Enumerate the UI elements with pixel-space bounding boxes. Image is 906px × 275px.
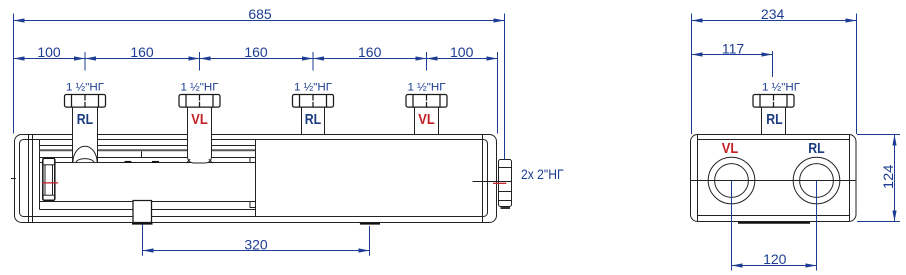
- hex plug red centerline: [42, 182, 58, 184]
- extension line left 685: [13, 14, 15, 134]
- nozzle 2 weld ticks: [186, 159, 190, 163]
- dimension 685: [14, 6, 505, 23]
- side inner offset bottom: [698, 215, 850, 217]
- nozzle 1 RL stub (sectioned): [73, 107, 98, 162]
- svg-text:1 ½"НГ: 1 ½"НГ: [294, 81, 332, 93]
- side nozzle stub: [762, 107, 786, 134]
- svg-text:100: 100: [450, 44, 474, 60]
- extension line 124 top: [857, 134, 900, 136]
- svg-text:1 ½"НГ: 1 ½"НГ: [762, 81, 800, 93]
- dimension chain 100/160/160/160/100: [14, 44, 498, 61]
- drain boss: [132, 201, 153, 224]
- nozzle 1 hex nut: [65, 95, 106, 108]
- side cap line left: [697, 135, 699, 222]
- side inner offset top: [698, 139, 850, 141]
- extension line 120 left (VL axis): [731, 181, 733, 271]
- foot (front view): [360, 223, 380, 225]
- svg-text:160: 160: [358, 44, 382, 60]
- svg-text:RL: RL: [305, 111, 321, 128]
- end connection centerline (black): [473, 181, 499, 183]
- svg-text:320: 320: [244, 236, 268, 252]
- hex plug at left end (sectioned): [43, 158, 56, 200]
- svg-text:RL: RL: [808, 140, 824, 157]
- side nozzle centerline stub: [772, 51, 774, 77]
- svg-text:VL: VL: [418, 111, 434, 128]
- svg-text:100: 100: [37, 44, 61, 60]
- svg-text:160: 160: [130, 44, 154, 60]
- section divider: [255, 140, 257, 217]
- svg-text:2x 2"НГ: 2x 2"НГ: [521, 166, 564, 182]
- nozzle 2 VL stub (sectioned tube): [188, 107, 212, 163]
- svg-text:1 ½"НГ: 1 ½"НГ: [66, 81, 104, 93]
- side horizontal centerline: [691, 180, 857, 182]
- left end cap lines: [28, 135, 30, 223]
- svg-text:RL: RL: [77, 111, 93, 128]
- extension line right 234: [856, 14, 858, 135]
- drain support tab left: [125, 161, 132, 163]
- extension line 120 right (RL axis): [816, 181, 818, 271]
- side foot: [738, 222, 810, 224]
- VL port circle: [708, 157, 755, 204]
- extension line 124 bottom: [857, 221, 900, 223]
- chamber left wall: [39, 140, 41, 210]
- nozzle centerline stubs: [84, 52, 86, 71]
- svg-text:124: 124: [880, 164, 896, 189]
- right end cap lines: [482, 135, 484, 223]
- extension line right 100-chain: [497, 52, 499, 134]
- section horizontal lines (cutaway area): [40, 146, 256, 210]
- end connection 2x2" nipple: [499, 160, 512, 209]
- svg-text:1 ½"НГ: 1 ½"НГ: [408, 81, 446, 93]
- extension line 320 left (drain axis): [142, 225, 144, 256]
- body outer shell: [15, 135, 497, 223]
- svg-text:117: 117: [722, 41, 745, 57]
- nozzle 1 bell mouth arc: [76, 159, 94, 163]
- nozzle 4 hex nut: [406, 95, 447, 108]
- nozzle 2 hex nut: [179, 95, 220, 108]
- body outer shell side: [691, 135, 857, 222]
- chamber end bracket bottom: [250, 202, 256, 208]
- dimension 124: [880, 135, 896, 222]
- chamber end bracket top: [250, 158, 256, 163]
- drain support tab right: [152, 161, 159, 163]
- drain support tick: [141, 151, 143, 157]
- dimension 117: [692, 41, 773, 57]
- nozzle 3 hex nut: [293, 95, 334, 108]
- svg-text:234: 234: [761, 6, 785, 22]
- svg-text:VL: VL: [191, 111, 207, 128]
- svg-text:685: 685: [248, 6, 272, 22]
- svg-text:1 ½"НГ: 1 ½"НГ: [181, 81, 219, 93]
- svg-text:RL: RL: [766, 111, 782, 128]
- extension line 320 right (foot axis): [369, 226, 371, 256]
- side cap line right: [849, 135, 851, 222]
- nozzle 1 bell dome: [73, 146, 97, 162]
- body axis tick left: [11, 178, 16, 180]
- extension line left 234: [691, 14, 693, 135]
- svg-text:160: 160: [244, 44, 268, 60]
- extension line right 685: [504, 14, 506, 160]
- nozzle 3 RL stub: [302, 107, 325, 134]
- end connection red centerline: [493, 182, 506, 184]
- RL port circle: [793, 157, 840, 204]
- side nozzle hex nut: [753, 95, 794, 108]
- dimension 234: [692, 6, 857, 23]
- nozzle 4 VL stub: [415, 107, 439, 134]
- svg-text:120: 120: [763, 251, 787, 267]
- body inner offset box: [20, 140, 488, 217]
- dimension 120: [732, 251, 817, 268]
- svg-text:VL: VL: [722, 140, 738, 157]
- dimension 320: [143, 236, 370, 252]
